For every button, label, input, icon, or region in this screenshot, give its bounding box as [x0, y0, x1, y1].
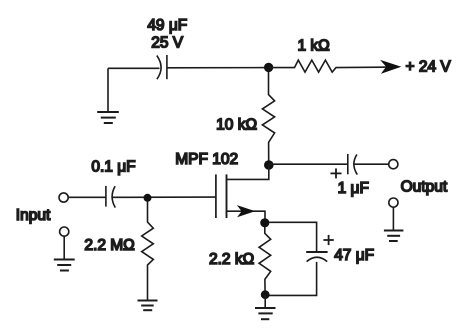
svg-text:25 V: 25 V — [151, 34, 184, 51]
capacitor C2 0.1uF — [106, 186, 115, 208]
svg-text:Output: Output — [401, 178, 448, 195]
input terminal — [59, 193, 68, 202]
ground (output) — [384, 207, 404, 241]
ground (below R3) — [138, 301, 158, 311]
svg-text:MPF 102: MPF 102 — [175, 151, 238, 168]
node C (gate junction) — [144, 194, 152, 202]
output terminal — [389, 160, 398, 169]
resistor R4 2.2 kOhm — [259, 227, 271, 295]
capacitor C4 47uF — [306, 252, 327, 262]
resistor R2 10 kOhm — [262, 72, 274, 165]
wire (C1 to supply node) — [167, 67, 269, 69]
node B (drain junction) — [264, 160, 274, 170]
resistor R3 2.2 MOhm — [142, 201, 154, 301]
svg-text:2.2 kΩ: 2.2 kΩ — [209, 251, 254, 268]
wire (input terminal to C2) — [68, 196, 106, 198]
resistor R1 1 kOhm — [269, 60, 387, 72]
transistor Q1 MPF 102 (JFET) — [216, 165, 269, 223]
svg-text:10 kΩ: 10 kΩ — [216, 117, 257, 134]
ground (below R4) — [255, 295, 276, 320]
wire (C2 to gate of Q1) — [112, 196, 215, 198]
capacitor C1 49uF 25V — [157, 55, 167, 79]
svg-text:47 μF: 47 μF — [334, 247, 374, 264]
ground (input) — [54, 236, 75, 270]
arrow to +24 V supply — [380, 60, 401, 74]
capacitor C3 1uF — [348, 154, 358, 175]
wire (source node to C4) — [269, 222, 316, 252]
node A (supply rail junction) — [264, 63, 273, 72]
svg-text:49 μF: 49 μF — [147, 17, 187, 34]
input ground terminal — [60, 227, 69, 236]
wire (ground to C1) — [108, 67, 160, 69]
output ground terminal — [389, 198, 398, 207]
svg-text:Input: Input — [16, 207, 51, 224]
wire (C4 to bottom node) — [265, 262, 316, 296]
wire (C3 to output terminal) — [354, 163, 388, 165]
plus sign of C4 — [323, 235, 333, 245]
svg-text:2.2 MΩ: 2.2 MΩ — [84, 237, 134, 254]
svg-text:1 μF: 1 μF — [338, 180, 369, 197]
node E (bottom junction) — [261, 290, 270, 299]
svg-text:1 kΩ: 1 kΩ — [297, 38, 329, 55]
svg-text:+ 24 V: + 24 V — [406, 58, 452, 75]
node D (source junction) — [260, 218, 269, 227]
ground (left, bypass cap return) — [97, 68, 119, 123]
wire (drain node to C3) — [269, 163, 348, 165]
svg-text:0.1 μF: 0.1 μF — [91, 158, 135, 175]
plus sign of C3 — [331, 168, 342, 178]
